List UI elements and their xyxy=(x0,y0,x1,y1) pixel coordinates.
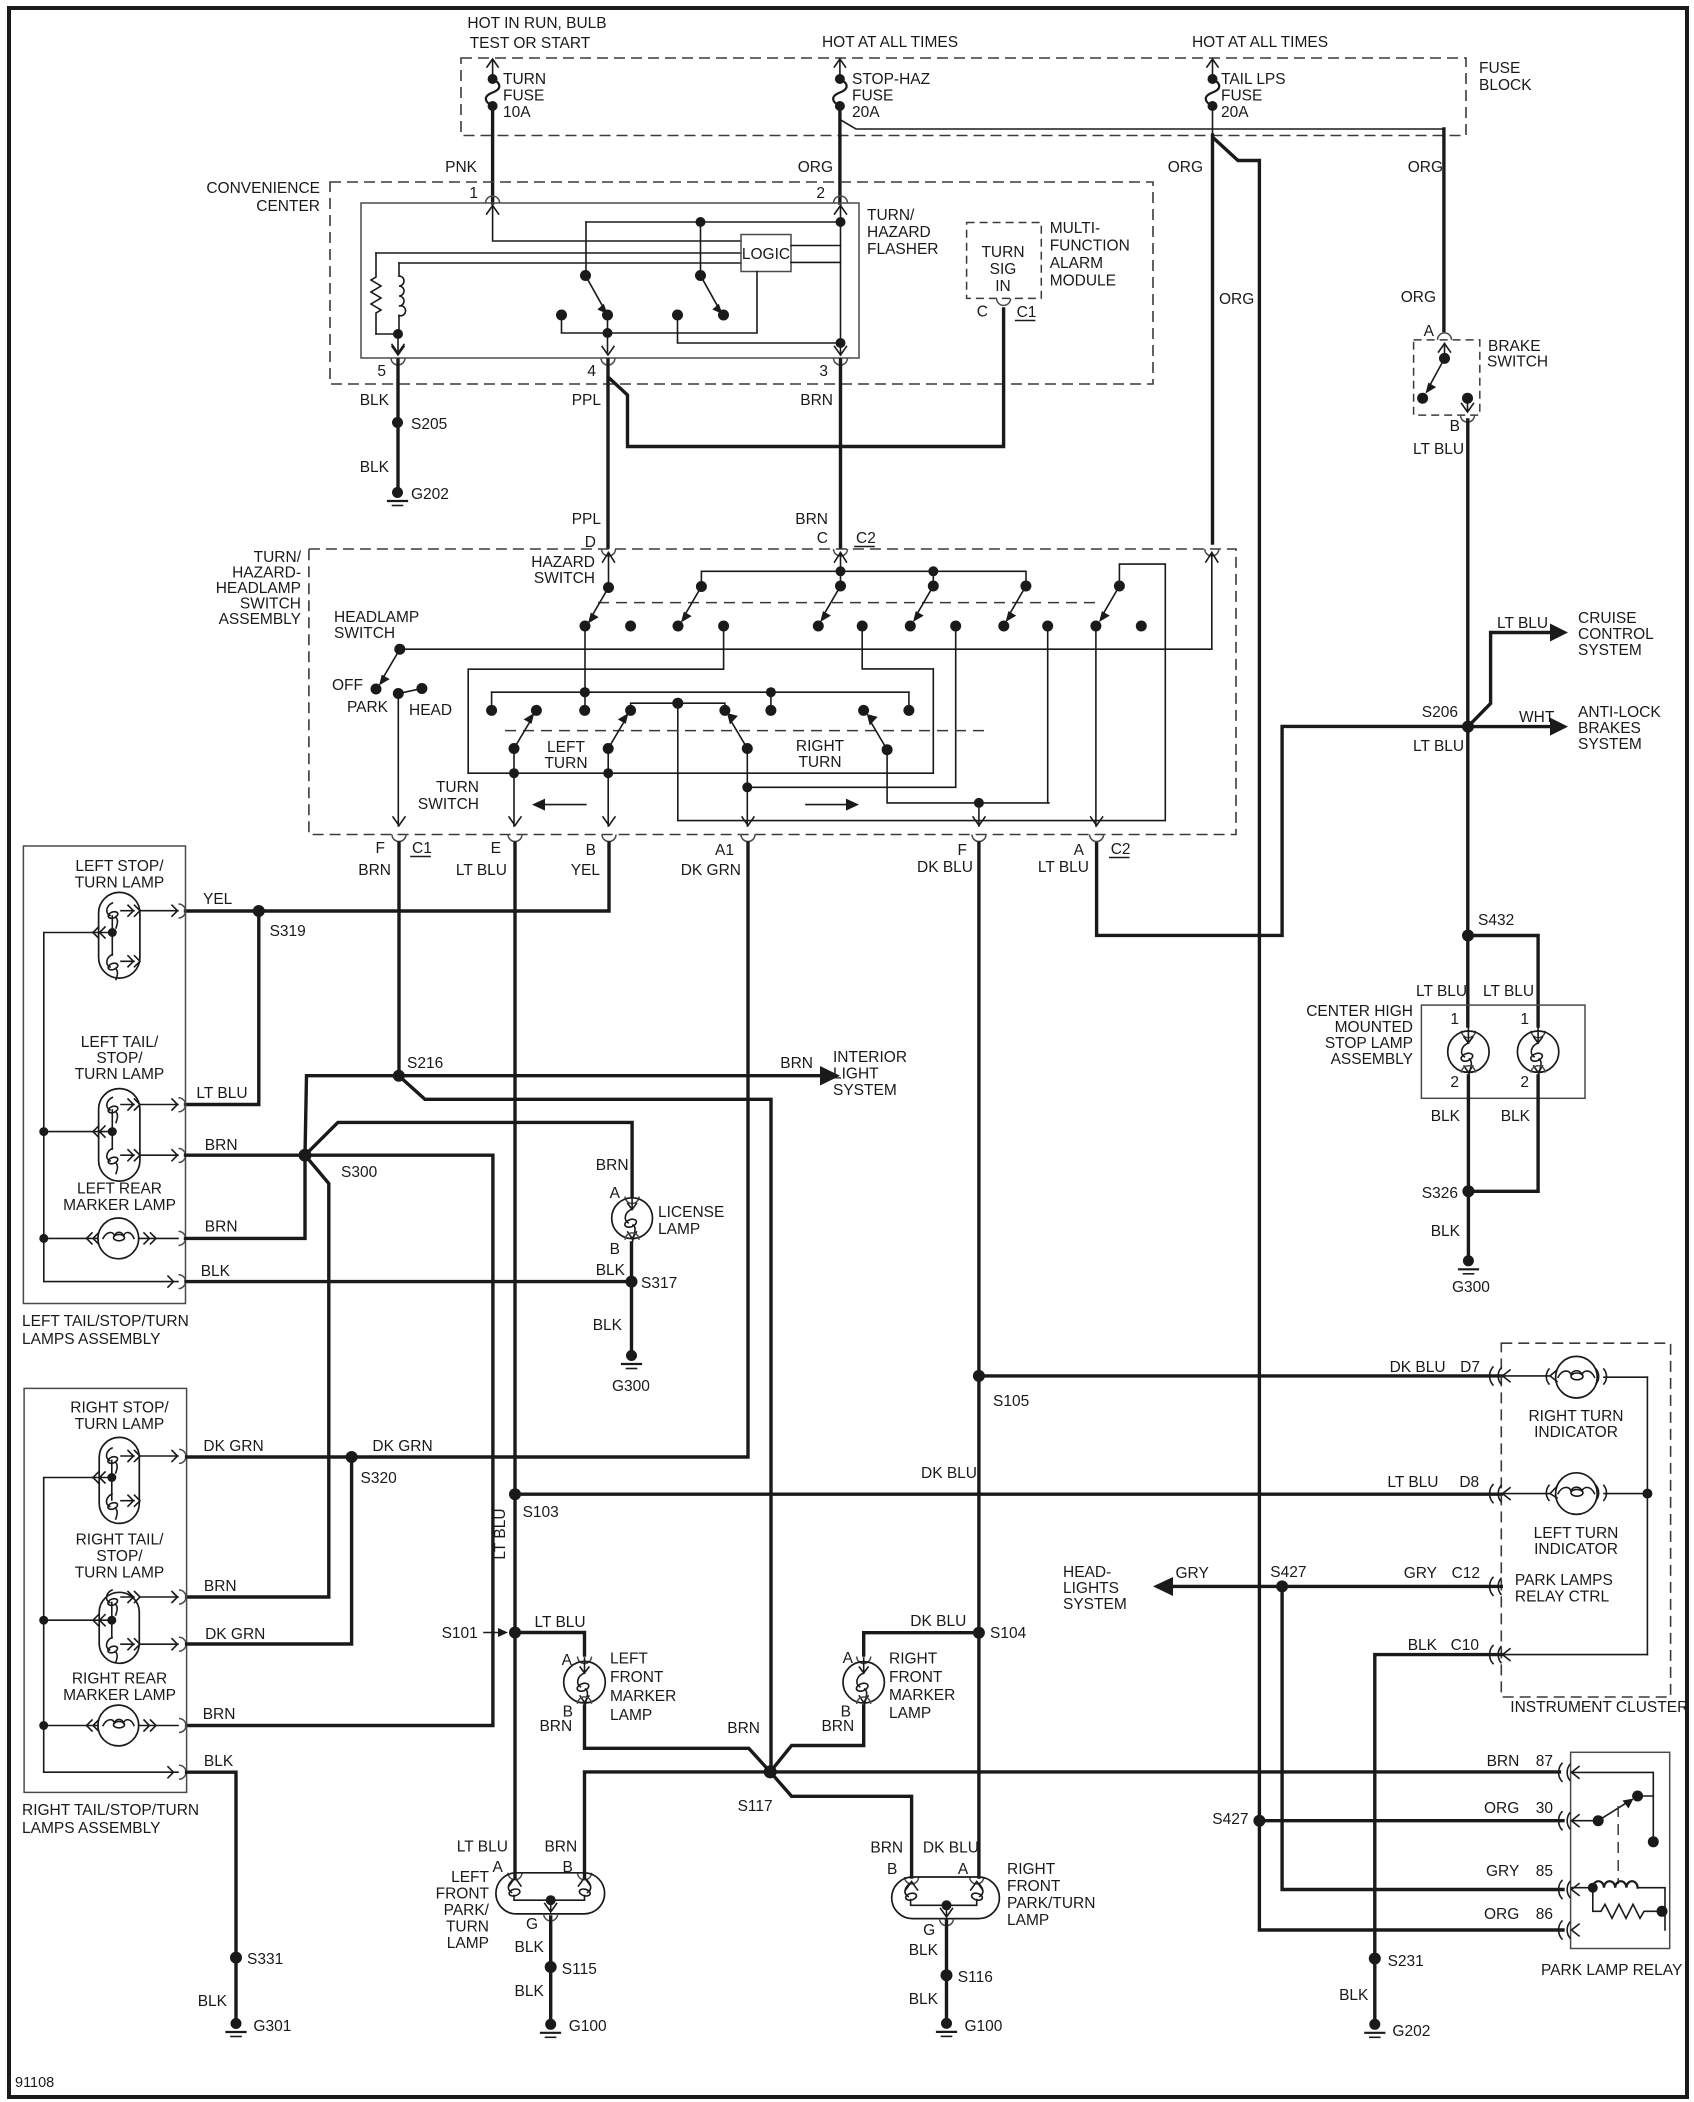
svg-text:RIGHT: RIGHT xyxy=(796,738,845,755)
svg-text:LT BLU: LT BLU xyxy=(457,1839,508,1856)
left tail/stop/turn lamp (dual filament) xyxy=(39,1089,185,1182)
svg-text:1: 1 xyxy=(1450,1011,1459,1028)
flasher wire pin2 vertical bus xyxy=(840,206,842,356)
wire WHT S206 to anti-lock brakes xyxy=(1468,725,1556,728)
svg-text:PPL: PPL xyxy=(572,511,602,528)
svg-text:A: A xyxy=(1074,842,1085,859)
wire BLK left park lamp G to S115 to G100 xyxy=(549,1917,552,2024)
left front park/turn lamp xyxy=(436,1839,605,1953)
wire PARK contact down to pin F xyxy=(397,694,399,827)
wire hazard contact4 to turn area xyxy=(468,626,723,773)
svg-text:S216: S216 xyxy=(407,1055,443,1072)
headlamp switch pivot and feed wire xyxy=(394,644,405,655)
svg-text:SWITCH: SWITCH xyxy=(240,596,301,613)
hazard pivot bus wire y571 xyxy=(701,571,1026,586)
brake switch contacts and arm xyxy=(1439,353,1450,364)
svg-text:TURN: TURN xyxy=(544,755,587,772)
svg-text:LAMPS ASSEMBLY: LAMPS ASSEMBLY xyxy=(22,1820,160,1837)
svg-text:GRY: GRY xyxy=(1404,1565,1437,1582)
bottom pin down-arrows xyxy=(393,817,1103,826)
svg-text:BRN: BRN xyxy=(203,1706,236,1723)
multi-function alarm module TURN SIG IN box xyxy=(967,223,1042,299)
svg-text:3: 3 xyxy=(819,363,828,380)
svg-text:G100: G100 xyxy=(965,2018,1003,2035)
splice S104 xyxy=(973,1627,985,1639)
svg-text:C2: C2 xyxy=(1111,841,1131,858)
wire BRN S117 to right park lamp B xyxy=(770,1772,911,1877)
svg-text:BLK: BLK xyxy=(514,1983,544,2000)
ground G300 (right) xyxy=(1463,1255,1474,1266)
svg-text:CONTROL: CONTROL xyxy=(1578,626,1654,643)
svg-text:G: G xyxy=(526,1916,538,1933)
svg-text:LAMP: LAMP xyxy=(889,1705,931,1722)
svg-text:C: C xyxy=(817,530,828,547)
svg-text:BLOCK: BLOCK xyxy=(1479,77,1532,94)
svg-text:RIGHT TAIL/STOP/TURN: RIGHT TAIL/STOP/TURN xyxy=(22,1802,199,1819)
svg-text:PARK LAMP RELAY: PARK LAMP RELAY xyxy=(1541,1962,1682,1979)
svg-text:SWITCH: SWITCH xyxy=(418,796,479,813)
svg-text:FLASHER: FLASHER xyxy=(867,241,939,258)
svg-text:S427: S427 xyxy=(1212,1811,1248,1828)
svg-text:HEAD-: HEAD- xyxy=(1063,1564,1111,1581)
svg-text:MULTI-: MULTI- xyxy=(1050,220,1101,237)
svg-text:2: 2 xyxy=(1450,1074,1459,1091)
svg-text:CENTER HIGH: CENTER HIGH xyxy=(1306,1003,1413,1020)
svg-text:LAMP: LAMP xyxy=(1007,1912,1049,1929)
hazard switch poles (pivots and arms) xyxy=(588,581,1125,624)
wire PPL branch pin4 to alarm module pin C xyxy=(609,309,1004,447)
wire BLK flasher pin5 to S205 to G202 xyxy=(396,360,399,493)
svg-text:S331: S331 xyxy=(247,1951,283,1968)
svg-text:C10: C10 xyxy=(1451,1637,1480,1654)
svg-text:PPL: PPL xyxy=(572,392,602,409)
svg-text:TURN LAMP: TURN LAMP xyxy=(75,875,165,892)
svg-text:BLK: BLK xyxy=(204,1753,234,1770)
right stop/turn lamp xyxy=(92,1437,186,1523)
svg-text:PARK/: PARK/ xyxy=(444,1902,490,1919)
svg-text:LEFT TURN: LEFT TURN xyxy=(1534,1525,1619,1542)
svg-text:YEL: YEL xyxy=(571,862,601,879)
svg-text:RIGHT: RIGHT xyxy=(1007,1861,1056,1878)
svg-text:S317: S317 xyxy=(641,1275,677,1292)
svg-text:DK BLU: DK BLU xyxy=(921,1465,977,1482)
turn switch arm R1 xyxy=(742,743,753,754)
ground G100 (left) xyxy=(545,2019,556,2030)
svg-text:TURN: TURN xyxy=(436,779,479,796)
svg-text:LEFT: LEFT xyxy=(610,1651,648,1668)
svg-text:TURN LAMP: TURN LAMP xyxy=(75,1565,165,1582)
svg-text:MOUNTED: MOUNTED xyxy=(1335,1019,1413,1036)
wire BRN flasher pin3 to hazard pin C xyxy=(839,360,842,547)
svg-text:LT BLU: LT BLU xyxy=(1413,441,1464,458)
turn switch upper wire y692 xyxy=(492,691,909,693)
wire DK BLU S104 to right front marker A xyxy=(864,1633,979,1655)
flasher pin 4 xyxy=(601,358,615,365)
pin D top connector xyxy=(602,549,616,556)
svg-text:D8: D8 xyxy=(1459,1474,1479,1491)
svg-text:HAZARD-: HAZARD- xyxy=(232,565,301,582)
svg-text:RELAY CTRL: RELAY CTRL xyxy=(1515,1589,1610,1606)
svg-text:S115: S115 xyxy=(562,1961,597,1978)
svg-text:DK GRN: DK GRN xyxy=(681,862,741,879)
wire ORG branch fuse2 to brake switch xyxy=(840,120,1444,130)
turn switch mechanical linkage xyxy=(505,730,987,732)
left bus to BLK connector xyxy=(44,1281,178,1283)
svg-text:A: A xyxy=(958,1861,969,1878)
license lamp xyxy=(610,1185,725,1258)
svg-text:FRONT: FRONT xyxy=(610,1669,664,1686)
splice S319 xyxy=(253,905,265,917)
svg-text:BRN: BRN xyxy=(539,1718,572,1735)
wire ORG fuse2 to flasher pin2 xyxy=(838,106,841,203)
svg-text:C2: C2 xyxy=(856,530,876,547)
wire ORG down to relay 86 xyxy=(1259,1821,1563,1930)
right bus to BLK connector xyxy=(44,1771,178,1773)
svg-text:D7: D7 xyxy=(1460,1359,1480,1376)
pin C top connector xyxy=(834,549,848,556)
flasher wire pivots feed y222 xyxy=(586,221,841,223)
svg-text:91108: 91108 xyxy=(15,2075,54,2091)
svg-text:FUSE: FUSE xyxy=(1479,60,1520,77)
svg-text:FUSE: FUSE xyxy=(852,88,893,105)
svg-text:LEFT REAR: LEFT REAR xyxy=(77,1181,162,1198)
svg-text:S206: S206 xyxy=(1422,704,1458,721)
svg-text:YEL: YEL xyxy=(203,891,233,908)
splice S103 xyxy=(509,1488,521,1500)
relay resistor parallel xyxy=(1593,1888,1665,1919)
svg-text:PARK/TURN: PARK/TURN xyxy=(1007,1895,1095,1912)
wire DK GRN S320 down to right lamp2 lower filament xyxy=(187,1457,352,1644)
svg-text:FRONT: FRONT xyxy=(889,1669,943,1686)
svg-text:S101: S101 xyxy=(442,1625,478,1642)
svg-text:S427: S427 xyxy=(1270,1564,1306,1581)
splice S427 (GRY) xyxy=(1276,1580,1288,1592)
svg-text:S300: S300 xyxy=(341,1164,378,1181)
svg-text:A1: A1 xyxy=(715,842,734,859)
svg-text:WHT: WHT xyxy=(1519,709,1555,726)
svg-text:S205: S205 xyxy=(411,416,447,433)
svg-text:ORG: ORG xyxy=(1484,1906,1519,1923)
svg-text:GRY: GRY xyxy=(1486,1863,1519,1880)
wire LT BLU brake pin B down to S206 S432 CHMSL xyxy=(1466,420,1469,1026)
svg-text:HEAD: HEAD xyxy=(409,702,452,719)
splice S105 xyxy=(973,1370,985,1382)
svg-text:ORG: ORG xyxy=(798,159,833,176)
svg-text:30: 30 xyxy=(1536,1800,1554,1817)
svg-text:LT BLU: LT BLU xyxy=(1387,1474,1438,1491)
left stop/turn lamp (dual filament) xyxy=(92,892,186,979)
ground G100 (right) xyxy=(941,2018,952,2029)
wire BLK S326 to G300 xyxy=(1467,1191,1470,1261)
svg-text:PARK: PARK xyxy=(347,699,389,716)
svg-text:BLK: BLK xyxy=(909,1991,939,2008)
direction arrow left xyxy=(540,804,586,806)
svg-text:LAMP: LAMP xyxy=(610,1707,652,1724)
wire DK BLU pin F down to S105 S104 right park lamp A xyxy=(977,843,980,1877)
svg-text:BRN: BRN xyxy=(870,1840,903,1857)
fuse F2 STOP-HAZ FUSE 20A xyxy=(833,59,930,121)
wire GRY S427 to cluster C12 xyxy=(1282,1585,1501,1588)
splice S300 xyxy=(299,1149,312,1162)
svg-text:BRN: BRN xyxy=(821,1718,854,1735)
svg-text:S319: S319 xyxy=(270,923,306,940)
left lamp1 common to bus xyxy=(44,933,92,1282)
svg-text:MARKER LAMP: MARKER LAMP xyxy=(63,1197,176,1214)
svg-text:B: B xyxy=(1450,418,1460,435)
svg-text:INDICATOR: INDICATOR xyxy=(1534,1424,1618,1441)
svg-text:10A: 10A xyxy=(503,104,531,121)
svg-text:BLK: BLK xyxy=(360,392,390,409)
svg-text:20A: 20A xyxy=(852,104,880,121)
wire BRN S117 left to left park lamp B xyxy=(585,1772,771,1877)
svg-text:HEADLAMP: HEADLAMP xyxy=(334,609,419,626)
svg-text:DK BLU: DK BLU xyxy=(1390,1359,1446,1376)
wire ORG fuse3 to switch pin D C1 xyxy=(1211,135,1214,543)
wire BRN left marker B to S117 xyxy=(585,1706,771,1772)
splice S432 xyxy=(1462,930,1474,942)
svg-text:SIG: SIG xyxy=(990,261,1017,278)
svg-text:LT BLU: LT BLU xyxy=(1416,983,1467,1000)
svg-text:SYSTEM: SYSTEM xyxy=(1578,642,1642,659)
svg-text:HAZARD: HAZARD xyxy=(867,224,931,241)
svg-text:G202: G202 xyxy=(1392,2023,1430,2040)
flasher wire logic right lower xyxy=(791,261,841,263)
svg-text:BRAKES: BRAKES xyxy=(1578,720,1641,737)
splice S326 xyxy=(1462,1185,1474,1197)
svg-text:B: B xyxy=(610,1241,620,1258)
svg-text:5: 5 xyxy=(377,363,386,380)
svg-text:G301: G301 xyxy=(253,2018,291,2035)
svg-text:TEST OR START: TEST OR START xyxy=(470,35,591,52)
right front park/turn lamp xyxy=(870,1840,1095,1940)
svg-text:CRUISE: CRUISE xyxy=(1578,610,1637,627)
svg-text:DK GRN: DK GRN xyxy=(205,1626,265,1643)
svg-text:MODULE: MODULE xyxy=(1050,273,1116,290)
svg-text:BRN: BRN xyxy=(795,511,828,528)
svg-text:HAZARD: HAZARD xyxy=(531,554,595,571)
wire S300 up to S216 xyxy=(305,1076,399,1156)
flasher LOGIC box xyxy=(741,235,791,272)
wire BRN S216 to interior light system xyxy=(399,1074,824,1077)
flasher pin 5 xyxy=(391,358,405,365)
svg-text:1: 1 xyxy=(1520,1011,1529,1028)
headlamp PARK and HEAD contacts xyxy=(393,688,404,699)
pin D C1 top connector (headlamp ORG) xyxy=(1205,549,1219,556)
wire PNK fuse1 to flasher pin1 xyxy=(491,106,494,203)
svg-text:LT BLU: LT BLU xyxy=(196,1085,247,1102)
fuse F1 TURN FUSE 10A xyxy=(486,59,546,136)
flasher pin 3 xyxy=(834,358,848,365)
svg-text:BLK: BLK xyxy=(909,1942,939,1959)
svg-text:FUSE: FUSE xyxy=(1221,88,1262,105)
svg-text:TURN/: TURN/ xyxy=(254,549,302,566)
wire S319 down to lamp2 LT BLU wire xyxy=(186,911,259,1105)
flasher wire coil top to LOGIC xyxy=(399,262,741,264)
svg-text:TURN: TURN xyxy=(798,754,841,771)
svg-text:RIGHT REAR: RIGHT REAR xyxy=(72,1671,167,1688)
cluster pin D7 connector xyxy=(1490,1367,1549,1385)
relay pin connectors xyxy=(1559,1763,1579,1939)
wire GRY S427 down to relay 85 xyxy=(1282,1586,1563,1889)
svg-text:RIGHT TAIL/: RIGHT TAIL/ xyxy=(76,1532,165,1549)
svg-text:S116: S116 xyxy=(958,1969,993,1986)
wire BRN S300 to license lamp xyxy=(305,1122,632,1196)
svg-text:LEFT TAIL/STOP/TURN: LEFT TAIL/STOP/TURN xyxy=(22,1313,189,1330)
svg-text:2: 2 xyxy=(1520,1074,1529,1091)
flasher node pin5 junction xyxy=(376,333,398,335)
wire BLK cluster C10 to S231 to G202 xyxy=(1375,1655,1502,2025)
turn switch arm R2 xyxy=(882,744,893,755)
right tail/stop/turn lamps assembly box xyxy=(24,1388,187,1792)
svg-text:BLK: BLK xyxy=(1408,1637,1438,1654)
svg-text:DK BLU: DK BLU xyxy=(910,1613,966,1630)
turn/hazard flasher box xyxy=(361,203,859,358)
CHMSL assembly box xyxy=(1421,1005,1585,1098)
svg-text:ORG: ORG xyxy=(1408,159,1443,176)
fuse F3 TAIL LPS FUSE 20A xyxy=(1206,59,1286,137)
svg-text:B: B xyxy=(586,842,596,859)
headlamp switch arm to OFF xyxy=(384,649,400,677)
svg-text:LT BLU: LT BLU xyxy=(535,1614,586,1631)
svg-text:2: 2 xyxy=(816,185,825,202)
svg-text:BLK: BLK xyxy=(514,1939,544,1956)
cluster pin C10 connector xyxy=(1490,1646,1648,1664)
svg-text:HOT AT ALL TIMES: HOT AT ALL TIMES xyxy=(1192,34,1328,51)
flasher wire logic right upper xyxy=(791,245,841,247)
hazard pivot D wire to right loop xyxy=(678,564,1166,821)
splice S216 xyxy=(393,1070,405,1082)
wire BLK CHMSL bulb2 to S326 xyxy=(1468,1076,1538,1191)
svg-text:FRONT: FRONT xyxy=(1007,1878,1061,1895)
svg-text:BRN: BRN xyxy=(204,1578,237,1595)
svg-text:TAIL LPS: TAIL LPS xyxy=(1221,71,1286,88)
wire ORG S427 to relay 30 xyxy=(1259,1819,1563,1822)
wire BLK left bus to S317 xyxy=(186,1280,632,1283)
svg-text:IN: IN xyxy=(995,278,1011,295)
svg-text:GRY: GRY xyxy=(1176,1565,1209,1582)
svg-text:BLK: BLK xyxy=(1431,1108,1461,1125)
wire LT BLU S432 to CHMSL bulb2 xyxy=(1468,936,1538,1027)
svg-text:LT BLU: LT BLU xyxy=(1413,738,1464,755)
splice S331 xyxy=(230,1952,242,1964)
svg-text:SYSTEM: SYSTEM xyxy=(833,1082,897,1099)
svg-text:STOP/: STOP/ xyxy=(96,1548,143,1565)
wire BRN S300 right branch down to right marker lamp xyxy=(187,1155,493,1725)
svg-text:S231: S231 xyxy=(1388,1953,1424,1970)
splice S317 xyxy=(626,1276,638,1288)
svg-text:ORG: ORG xyxy=(1219,291,1254,308)
svg-text:BRN: BRN xyxy=(544,1839,577,1856)
svg-text:LT BLU: LT BLU xyxy=(1483,983,1534,1000)
ground G300 (left) xyxy=(626,1350,637,1361)
svg-text:1: 1 xyxy=(469,185,478,202)
svg-text:DK BLU: DK BLU xyxy=(917,859,973,876)
flasher pin 2 xyxy=(834,196,848,203)
svg-text:ALARM: ALARM xyxy=(1050,255,1103,272)
wire GRY arrow to headlights system xyxy=(1170,1585,1282,1588)
wire DK GRN pin A1 down to S320 wire xyxy=(352,843,748,1457)
turn switch pivot verticals to pins xyxy=(513,749,515,827)
svg-text:LOGIC: LOGIC xyxy=(742,246,790,263)
splice S206 xyxy=(1462,721,1474,733)
splice S320 xyxy=(346,1451,358,1463)
wire LT BLU turn switch pin A C2 loop to S206 xyxy=(1097,726,1468,935)
relay internal: pin 87 to NO contact xyxy=(1572,1772,1654,1841)
svg-text:4: 4 xyxy=(587,363,596,380)
flasher switch SW1 xyxy=(585,222,587,275)
svg-text:RIGHT STOP/: RIGHT STOP/ xyxy=(70,1400,169,1417)
svg-text:STOP-HAZ: STOP-HAZ xyxy=(852,71,930,88)
svg-text:C1: C1 xyxy=(412,840,432,857)
svg-text:G100: G100 xyxy=(569,2018,607,2035)
svg-text:LIGHT: LIGHT xyxy=(833,1066,879,1083)
svg-text:LAMP: LAMP xyxy=(658,1221,700,1238)
svg-text:SWITCH: SWITCH xyxy=(1487,354,1548,371)
ground G202 xyxy=(392,487,403,498)
svg-text:RIGHT: RIGHT xyxy=(889,1651,938,1668)
svg-text:A: A xyxy=(1424,323,1435,340)
svg-text:CONVENIENCE: CONVENIENCE xyxy=(206,180,320,197)
wire BRN S300 down to left marker xyxy=(186,1155,306,1238)
convenience center dashed box xyxy=(330,182,1153,384)
wire LT BLU S101 to left front marker A xyxy=(515,1633,585,1656)
svg-text:B: B xyxy=(887,1861,897,1878)
flasher switch SW2 xyxy=(700,222,702,275)
svg-text:MARKER: MARKER xyxy=(889,1687,955,1704)
svg-text:S105: S105 xyxy=(993,1393,1029,1410)
wire hazard contact10 down to wire y803 xyxy=(1047,626,1049,803)
wire BRN S216 diag to S117 trunk xyxy=(399,1076,771,1772)
svg-text:HOT AT ALL TIMES: HOT AT ALL TIMES xyxy=(822,34,958,51)
wire BRN S300 diag down to right tail lamp xyxy=(187,1155,329,1597)
svg-text:BLK: BLK xyxy=(360,459,390,476)
svg-text:LT BLU: LT BLU xyxy=(1497,615,1548,632)
wire BLK license B to S317 xyxy=(630,1243,633,1356)
svg-text:BRN: BRN xyxy=(780,1055,813,1072)
wire BLK right park lamp G to S116 to G100 xyxy=(945,1921,948,2023)
wire S103 to cluster D8 xyxy=(515,1492,1501,1495)
turn switch wire y773 xyxy=(468,772,933,774)
svg-text:85: 85 xyxy=(1536,1863,1553,1880)
splice S101 with pointer xyxy=(509,1627,521,1639)
svg-text:BRN: BRN xyxy=(800,392,833,409)
svg-text:OFF: OFF xyxy=(332,677,363,694)
flasher coil L xyxy=(398,263,400,276)
svg-text:BRN: BRN xyxy=(205,1219,238,1236)
brake switch pin A xyxy=(1438,333,1452,340)
svg-text:BLK: BLK xyxy=(593,1317,623,1334)
svg-text:BLK: BLK xyxy=(1431,1223,1461,1240)
svg-text:BRN: BRN xyxy=(205,1137,238,1154)
wire hazard contact11 down to pin A xyxy=(1095,626,1097,826)
svg-text:LIGHTS: LIGHTS xyxy=(1063,1580,1119,1597)
left rear marker lamp xyxy=(39,1218,185,1259)
svg-text:C12: C12 xyxy=(1452,1565,1480,1582)
left turn indicator bulb xyxy=(1546,1473,1647,1515)
svg-text:G300: G300 xyxy=(1452,1279,1490,1296)
wire BRN pin F down to S216 xyxy=(397,843,400,1076)
svg-text:TURN/: TURN/ xyxy=(867,207,915,224)
svg-text:PARK LAMPS: PARK LAMPS xyxy=(1515,1572,1613,1589)
svg-text:STOP/: STOP/ xyxy=(96,1050,143,1067)
svg-text:G300: G300 xyxy=(612,1378,650,1395)
cluster internal bus D7-D8-C10 xyxy=(1646,1377,1648,1654)
cluster pin C12 connector xyxy=(1490,1577,1501,1595)
splice S427 (ORG to relay 30) xyxy=(1253,1815,1265,1827)
svg-text:TURN: TURN xyxy=(446,1919,489,1936)
svg-text:BRAKE: BRAKE xyxy=(1488,338,1541,355)
svg-text:SYSTEM: SYSTEM xyxy=(1578,736,1642,753)
